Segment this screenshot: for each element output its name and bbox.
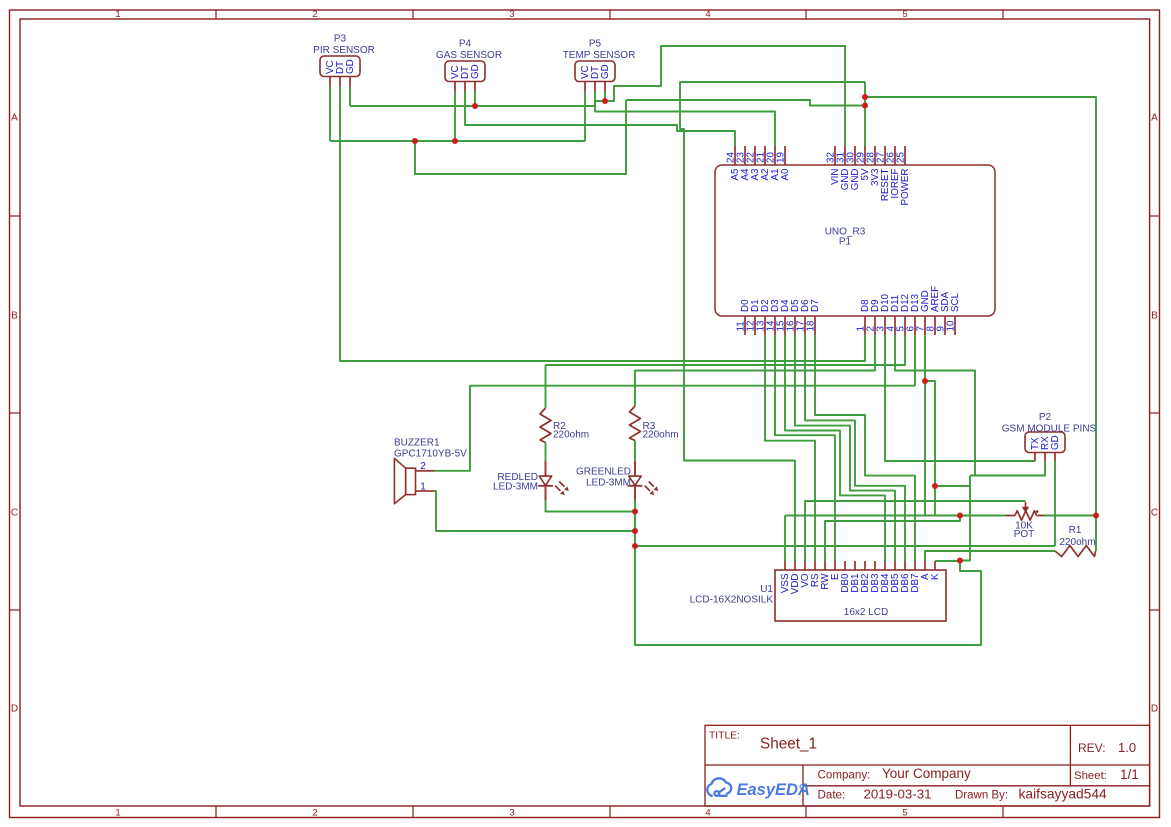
svg-text:5: 5 — [902, 808, 907, 819]
svg-text:POWER: POWER — [900, 169, 911, 206]
svg-text:16x2 LCD: 16x2 LCD — [844, 607, 888, 618]
svg-text:Your Company: Your Company — [882, 766, 971, 781]
svg-text:Company:: Company: — [818, 769, 871, 782]
svg-text:2019-03-31: 2019-03-31 — [864, 787, 932, 802]
svg-text:1: 1 — [115, 808, 120, 819]
svg-text:C: C — [1151, 508, 1158, 519]
svg-text:P5: P5 — [589, 39, 602, 50]
svg-text:2: 2 — [312, 9, 317, 20]
svg-text:A: A — [11, 113, 18, 124]
svg-text:GD: GD — [470, 64, 481, 79]
svg-text:B: B — [11, 311, 18, 322]
svg-text:SCL: SCL — [950, 292, 961, 312]
svg-text:GD: GD — [1050, 435, 1061, 450]
svg-text:220ohm: 220ohm — [643, 430, 679, 441]
svg-text:4: 4 — [705, 808, 710, 819]
svg-text:D7: D7 — [810, 299, 821, 312]
svg-text:TITLE:: TITLE: — [709, 731, 740, 742]
svg-text:D: D — [1151, 704, 1158, 715]
svg-text:K: K — [930, 573, 941, 580]
svg-text:19: 19 — [776, 152, 787, 163]
svg-text:P2: P2 — [1039, 412, 1052, 423]
svg-text:3: 3 — [509, 9, 514, 20]
svg-text:Date:: Date: — [818, 789, 846, 802]
svg-text:3: 3 — [509, 808, 514, 819]
svg-text:1.0: 1.0 — [1118, 740, 1136, 755]
svg-text:1/1: 1/1 — [1120, 767, 1139, 782]
svg-text:1: 1 — [420, 482, 426, 493]
svg-text:R1: R1 — [1069, 525, 1082, 536]
svg-text:220ohm: 220ohm — [1059, 537, 1095, 548]
svg-text:GAS SENSOR: GAS SENSOR — [436, 50, 502, 61]
svg-text:4: 4 — [705, 9, 710, 20]
svg-text:REV:: REV: — [1078, 741, 1106, 755]
svg-text:B: B — [1151, 311, 1158, 322]
svg-text:LED-3MM: LED-3MM — [493, 482, 538, 493]
svg-text:A: A — [1151, 113, 1158, 124]
svg-text:GREENLED: GREENLED — [576, 467, 631, 478]
svg-text:POT: POT — [1014, 529, 1035, 540]
svg-text:10: 10 — [946, 320, 957, 331]
svg-text:A0: A0 — [780, 168, 791, 181]
svg-text:D: D — [11, 704, 18, 715]
svg-text:2: 2 — [312, 808, 317, 819]
svg-text:18: 18 — [806, 320, 817, 331]
svg-text:1: 1 — [115, 9, 120, 20]
svg-text:TEMP SENSOR: TEMP SENSOR — [563, 50, 636, 61]
svg-text:C: C — [11, 508, 18, 519]
svg-text:EasyEDA: EasyEDA — [737, 781, 810, 799]
svg-text:GSM MODULE PINS: GSM MODULE PINS — [1002, 424, 1097, 435]
svg-text:P1: P1 — [839, 237, 852, 248]
svg-text:Drawn By:: Drawn By: — [955, 790, 1008, 802]
svg-text:LCD-16X2NOSILK: LCD-16X2NOSILK — [690, 595, 774, 606]
svg-text:GD: GD — [600, 64, 611, 79]
svg-text:Sheet:: Sheet: — [1074, 770, 1107, 782]
svg-text:GPC1710YB-5V: GPC1710YB-5V — [394, 449, 467, 460]
svg-text:25: 25 — [896, 152, 907, 163]
svg-text:5: 5 — [902, 9, 907, 20]
svg-text:U1: U1 — [760, 584, 773, 595]
svg-text:P3: P3 — [334, 34, 347, 45]
svg-text:GD: GD — [345, 59, 356, 74]
svg-text:2: 2 — [420, 461, 426, 472]
svg-text:LED-3MM: LED-3MM — [586, 478, 631, 489]
svg-text:kaifsayyad544: kaifsayyad544 — [1019, 787, 1108, 802]
svg-text:Sheet_1: Sheet_1 — [760, 736, 817, 753]
svg-text:P4: P4 — [459, 39, 472, 50]
svg-text:BUZZER1: BUZZER1 — [394, 438, 440, 449]
svg-text:PIR SENSOR: PIR SENSOR — [313, 45, 375, 56]
svg-text:220ohm: 220ohm — [553, 430, 589, 441]
